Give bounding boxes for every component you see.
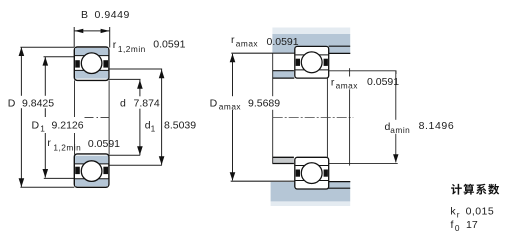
label D1 9.2126 — [31, 117, 85, 133]
shaft shoulder bottom lines — [272, 156, 294, 158]
da extension vertical line — [349, 68, 351, 165]
svg-text:1: 1 — [151, 123, 156, 133]
D dimension line — [20, 48, 22, 187]
bearing cross-section top (left figure) — [74, 47, 109, 80]
housing top halo fringe — [272, 28, 350, 35]
D1 extension line top — [44, 56, 75, 58]
D_amax arrow up — [230, 54, 236, 63]
svg-text:f: f — [451, 219, 454, 231]
housing shoulder line right top — [329, 52, 351, 54]
housing top (blue) — [272, 34, 350, 53]
d1 dimension line — [161, 69, 163, 164]
shaft seat line top — [272, 77, 294, 79]
d1 arrow up — [159, 70, 165, 79]
svg-text:17: 17 — [466, 219, 478, 231]
left bearing face line right — [108, 80, 110, 154]
B arrow right — [101, 29, 110, 33]
svg-text:1: 1 — [40, 123, 45, 133]
svg-text:r: r — [457, 209, 460, 219]
label D 9.8425 — [7, 96, 57, 108]
svg-text:1,2min: 1,2min — [118, 44, 146, 54]
d arrow up — [137, 80, 143, 89]
bearing cross-section bottom (right figure) — [295, 157, 329, 189]
svg-text:9.8425: 9.8425 — [22, 97, 54, 109]
D extension line top — [20, 46, 74, 48]
housing bore line right bottom — [327, 187, 350, 189]
d_amin arrow down — [393, 154, 398, 162]
svg-text:D: D — [8, 97, 16, 109]
svg-text:0,015: 0,015 — [466, 206, 495, 218]
label d_amin 8.1496 — [384, 120, 455, 134]
D arrow up — [19, 47, 25, 56]
svg-text:0.0591: 0.0591 — [367, 76, 399, 88]
svg-text:0.0591: 0.0591 — [153, 39, 185, 51]
d extension line bottom — [109, 154, 140, 156]
bearing cross-section top (right figure) — [295, 46, 329, 78]
svg-text:1,2min: 1,2min — [53, 142, 81, 152]
D_amax dimension line — [232, 54, 234, 181]
svg-text:amax: amax — [336, 81, 359, 91]
shaft shoulder bar top (blue) — [272, 71, 294, 78]
bearing right face line (right figure) — [326, 78, 328, 157]
svg-text:amax: amax — [236, 38, 259, 48]
svg-text:0: 0 — [455, 223, 460, 233]
d1 extension line bottom — [109, 164, 162, 166]
B arrow left — [75, 29, 84, 33]
housing bore line right — [329, 45, 351, 47]
d arrow down — [137, 146, 143, 155]
da shoulder line right bottom — [329, 162, 398, 164]
svg-text:d: d — [120, 97, 126, 109]
B dimension line — [74, 30, 110, 32]
housing bottom (blue) — [271, 182, 351, 201]
svg-text:r: r — [331, 76, 335, 88]
shaft shoulder bar bottom (gray) — [272, 157, 294, 163]
D extension line bottom — [20, 186, 74, 188]
svg-text:8.5039: 8.5039 — [164, 119, 196, 131]
left bearing face line left — [74, 80, 76, 154]
d dimension leader top — [109, 78, 140, 81]
svg-text:7.874: 7.874 — [134, 97, 160, 109]
svg-text:D: D — [32, 119, 40, 131]
shaft shoulder top line — [272, 70, 294, 72]
B dimension extension line left — [73, 27, 75, 47]
housing bottom halo fringe — [271, 201, 351, 206]
svg-text:r: r — [47, 137, 51, 149]
right figure axis — [273, 117, 354, 119]
svg-text:amin: amin — [390, 125, 410, 135]
svg-text:k: k — [450, 206, 456, 218]
D1 arrow up — [43, 57, 49, 66]
d1 arrow down — [159, 156, 165, 165]
svg-text:r: r — [113, 39, 117, 51]
bearing cross-section bottom (left figure) — [74, 154, 109, 187]
label: calculation factors (Chinese, drawn as paths) — [451, 184, 499, 195]
d_amin dimension line — [395, 71, 397, 162]
svg-text:D: D — [210, 98, 218, 110]
da shoulder line right top — [329, 71, 396, 74]
label D_amax 9.5689 — [209, 96, 282, 110]
svg-text:9.5689: 9.5689 — [248, 98, 280, 110]
d dimension line — [139, 80, 141, 155]
d1 dimension leader top — [109, 68, 162, 71]
B dimension extension line right — [109, 27, 111, 48]
D_amax arrow down — [230, 172, 236, 180]
svg-text:8.1496: 8.1496 — [419, 120, 455, 132]
label d 7.874 — [133, 96, 161, 108]
svg-text:0.0591: 0.0591 — [267, 36, 299, 48]
svg-text:9.2126: 9.2126 — [52, 119, 84, 131]
housing shoulder line right bottom — [329, 181, 351, 183]
D arrow down — [19, 178, 25, 187]
Da shoulder extension line top — [231, 52, 295, 54]
left figure axis dash-dot — [84, 116, 110, 118]
svg-text:0.9449: 0.9449 — [95, 9, 130, 21]
D1 arrow down — [43, 169, 49, 178]
label r_amax middle — [330, 77, 357, 90]
svg-text:amax: amax — [219, 101, 242, 111]
D1 extension line bottom — [44, 177, 75, 179]
svg-text:B: B — [81, 9, 88, 21]
svg-text:0.0591: 0.0591 — [88, 138, 120, 150]
Da shoulder extension line bottom — [231, 180, 295, 182]
svg-text:r: r — [231, 34, 235, 46]
D1 dimension line — [44, 57, 46, 178]
housing/shaft left edge line — [272, 53, 274, 163]
